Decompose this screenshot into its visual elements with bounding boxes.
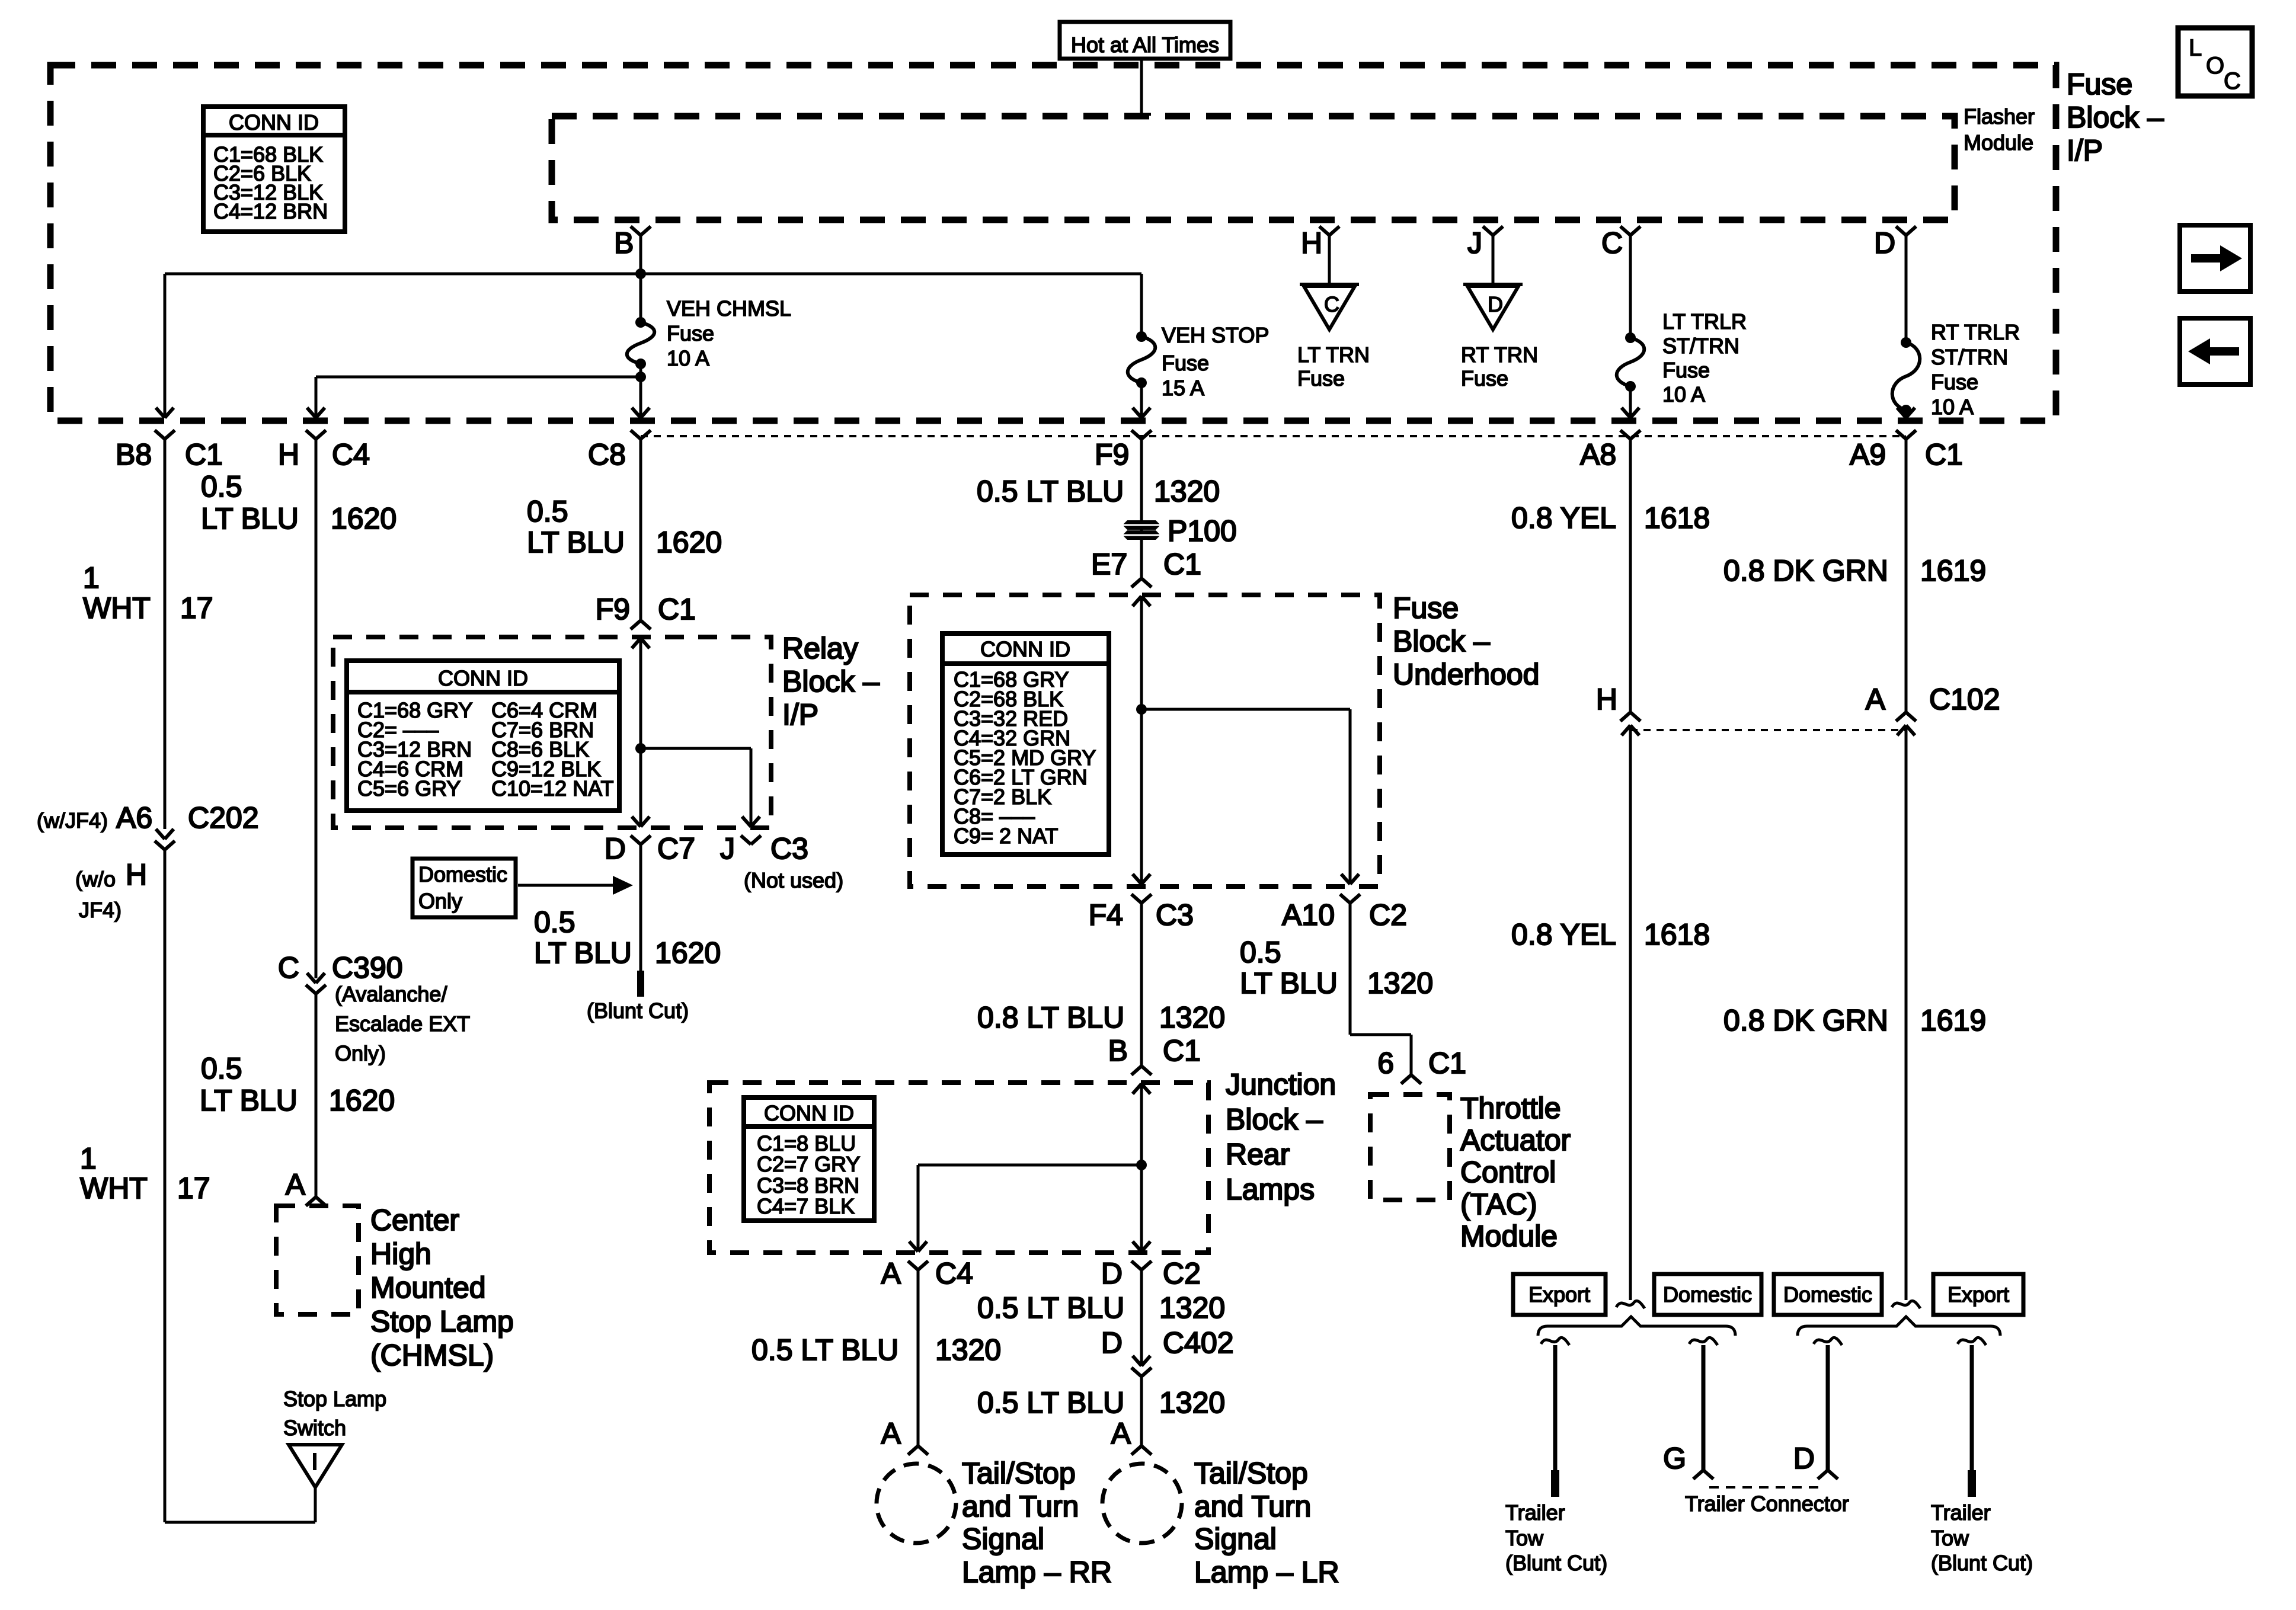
svg-text:A10: A10 — [1282, 898, 1335, 932]
wire label 0.8 LT BLU 1320 — [977, 1001, 1225, 1034]
svg-text:and Turn: and Turn — [962, 1490, 1079, 1523]
svg-text:Flasher: Flasher — [1964, 104, 2035, 129]
svg-text:0.8 DK GRN: 0.8 DK GRN — [1723, 554, 1888, 587]
brace grouping left trailer wires — [1538, 1317, 1735, 1336]
svg-text:VEH CHMSL: VEH CHMSL — [667, 296, 791, 321]
svg-text:A9: A9 — [1850, 438, 1886, 471]
wire label 0.5 LT BLU 1320 (LR) — [977, 1386, 1225, 1419]
svg-text:C1: C1 — [658, 593, 696, 626]
LT TRLR ST/TRN fuse 10A symbol — [1617, 332, 1645, 392]
svg-text:F9: F9 — [1095, 438, 1129, 471]
Export box right — [1933, 1274, 2023, 1315]
svg-text:1: 1 — [80, 1142, 97, 1175]
svg-text:I/P: I/P — [782, 698, 818, 731]
wire 0.5 LT BLU 1620 to relay block — [639, 439, 642, 620]
svg-text:0.5: 0.5 — [534, 905, 575, 939]
arrow at fuse block exit C8 — [632, 408, 650, 418]
connector chevron B8 — [155, 430, 175, 439]
RT TRLR ST/TRN fuse 10A symbol — [1892, 337, 1920, 415]
chevron A C4 — [908, 1261, 928, 1270]
wire inside relay block — [639, 638, 642, 826]
svg-text:Fuse: Fuse — [1461, 366, 1508, 391]
svg-text:1620: 1620 — [655, 936, 721, 969]
svg-text:Hot at All Times: Hot at All Times — [1071, 33, 1219, 57]
svg-text:1618: 1618 — [1644, 918, 1710, 951]
wire label 0.5 LT BLU 1320 (RR) — [752, 1333, 1001, 1366]
svg-text:Lamp – LR: Lamp – LR — [1194, 1555, 1339, 1589]
svg-text:F4: F4 — [1089, 898, 1123, 932]
wire label 0.5 LT BLU 1320 (D C2) — [977, 1291, 1225, 1324]
wire jog right to TAC — [1350, 1033, 1411, 1036]
VEH STOP fuse label — [1162, 323, 1269, 400]
svg-text:Only): Only) — [335, 1041, 386, 1065]
svg-text:1620: 1620 — [329, 1084, 395, 1117]
svg-text:Trailer Connector: Trailer Connector — [1685, 1491, 1849, 1516]
6 C1 labels at TAC — [1377, 1046, 1466, 1080]
svg-text:D: D — [1101, 1257, 1123, 1290]
svg-text:A6: A6 — [116, 801, 152, 834]
svg-text:Block –: Block – — [782, 665, 880, 698]
B C1 labels at junction block — [1108, 1034, 1201, 1067]
svg-text:VEH STOP: VEH STOP — [1162, 323, 1269, 347]
svg-text:D: D — [605, 832, 626, 865]
wire from Hot at All Times to flasher module — [1140, 59, 1143, 114]
svg-text:G: G — [1663, 1442, 1686, 1475]
svg-text:Underhood: Underhood — [1393, 658, 1539, 691]
Tail/Stop RR lamp circle — [877, 1464, 956, 1543]
svg-text:H: H — [126, 858, 147, 891]
svg-text:A: A — [1111, 1417, 1131, 1450]
wire label 0.8 YEL 1618 — [1511, 501, 1710, 534]
svg-text:(Blunt Cut): (Blunt Cut) — [1505, 1551, 1607, 1575]
Flasher Module label — [1964, 104, 2035, 155]
arrow underhood exit A10 — [1341, 874, 1359, 884]
wire 0.8 YEL 1618 upper — [1629, 439, 1632, 712]
branch wire to A C4 — [918, 1164, 1141, 1167]
blunt cut bar trailer left — [1551, 1470, 1559, 1497]
CHMSL title — [370, 1204, 514, 1372]
E7 C1 labels — [1091, 548, 1201, 581]
svg-text:1320: 1320 — [1367, 966, 1433, 1000]
svg-text:C1: C1 — [1925, 438, 1963, 471]
connector C at flasher module — [1620, 226, 1641, 235]
arrow into relay block — [632, 638, 650, 648]
svg-text:Block –: Block – — [2067, 101, 2164, 134]
wire label 0.8 DK GRN 1619 — [1723, 554, 1986, 587]
D C7 labels — [605, 832, 695, 865]
svg-text:0.8 YEL: 0.8 YEL — [1511, 918, 1616, 951]
svg-text:O: O — [2206, 53, 2224, 79]
LOC box — [2178, 28, 2252, 96]
svg-text:High: High — [370, 1237, 431, 1270]
wire from fuse to C8 — [639, 364, 642, 416]
Relay Block - I/P title — [782, 632, 880, 731]
svg-text:Stop Lamp: Stop Lamp — [283, 1387, 386, 1411]
svg-text:0.5: 0.5 — [1240, 936, 1281, 969]
connector chevron A9 — [1896, 430, 1916, 439]
CONN ID table (Junction Block Rear Lamps) — [744, 1097, 874, 1221]
Trailer Tow (Blunt Cut) label left — [1505, 1500, 1607, 1575]
svg-text:CONN ID: CONN ID — [229, 110, 319, 135]
junction inside underhood block — [1136, 704, 1147, 715]
svg-text:Stop Lamp: Stop Lamp — [370, 1305, 514, 1338]
connector C102 arrow up (left) — [1622, 725, 1639, 735]
splice P100 — [1123, 520, 1160, 540]
wire 0.5 LT BLU 1320 upper to C402 — [1140, 1270, 1143, 1366]
svg-text:C1: C1 — [1428, 1046, 1466, 1080]
branch wire down to J C3 — [750, 748, 753, 826]
wire label 0.5 LT BLU 1320 — [977, 475, 1220, 508]
LT TRLR fuse label — [1662, 309, 1747, 406]
wire D down — [1905, 235, 1908, 343]
svg-text:Center: Center — [370, 1204, 459, 1237]
svg-text:1320: 1320 — [1159, 1386, 1225, 1419]
Domestic Only box — [412, 859, 516, 917]
svg-text:15 A: 15 A — [1162, 376, 1204, 400]
wire J down — [1492, 235, 1495, 284]
wire break trailer G — [1689, 1337, 1718, 1345]
RT TRN fuse label — [1461, 343, 1538, 391]
F4 C3 labels — [1089, 898, 1194, 932]
svg-text:C: C — [1601, 226, 1623, 260]
svg-text:A: A — [1866, 683, 1886, 716]
svg-text:Fuse: Fuse — [667, 321, 714, 345]
Fuse Block - I/P dashed box — [50, 65, 2056, 421]
connector C202 chevron — [155, 841, 175, 850]
Domestic Only text — [418, 862, 507, 913]
svg-text:A8: A8 — [1580, 438, 1616, 471]
svg-text:10 A: 10 A — [667, 346, 709, 370]
connector F9 chevron at relay block — [631, 620, 651, 629]
branch down to A10 C2 — [1349, 709, 1352, 884]
svg-text:C102: C102 — [1929, 683, 2000, 716]
svg-text:LT BLU: LT BLU — [200, 1084, 298, 1117]
Domestic box right — [1774, 1274, 1882, 1315]
svg-text:H: H — [1596, 683, 1617, 716]
svg-text:1620: 1620 — [656, 526, 722, 559]
wire break at Export/Domestic — [1616, 1301, 1645, 1308]
svg-text:C2: C2 — [1369, 898, 1407, 932]
wire label 0.5 LT BLU 1320 (A10) — [1240, 936, 1433, 1000]
branch down to A C4 — [917, 1165, 920, 1251]
svg-text:C1: C1 — [1163, 548, 1201, 581]
wire to VEH CHMSL fuse — [639, 274, 642, 322]
svg-text:I/P: I/P — [2067, 134, 2103, 167]
trailer connector wire G — [1702, 1345, 1706, 1470]
arrow at relay exit D C7 — [632, 817, 650, 827]
Domestic Only arrow — [518, 876, 633, 895]
connector chevron C8 — [631, 430, 651, 439]
wire B down — [639, 235, 642, 274]
junction on B wire — [635, 268, 646, 279]
connector H chevron at C102 — [1620, 712, 1641, 721]
svg-text:P100: P100 — [1168, 514, 1237, 548]
arrow at fuse block exit C4 — [307, 408, 325, 418]
VEH CHMSL fuse label — [667, 296, 791, 370]
svg-text:1320: 1320 — [1154, 475, 1220, 508]
svg-text:D: D — [1874, 226, 1895, 260]
svg-text:D: D — [1793, 1442, 1815, 1475]
svg-text:(Blunt Cut): (Blunt Cut) — [1931, 1551, 2033, 1575]
wire label 0.5 LT BLU 1620 (blunt) — [534, 905, 721, 969]
C C390 labels — [278, 951, 470, 1065]
arrow at relay exit J C3 — [742, 817, 760, 827]
fuse block bottom pin labels — [116, 438, 1963, 471]
svg-text:1619: 1619 — [1920, 1004, 1986, 1037]
Domestic box left — [1654, 1274, 1761, 1315]
wire down to B8 — [164, 274, 167, 416]
svg-text:A: A — [881, 1257, 901, 1290]
wire 0.8 DK GRN 1619 lower — [1905, 725, 1908, 1300]
svg-text:C4: C4 — [332, 438, 370, 471]
svg-text:Only: Only — [418, 889, 462, 913]
left arrow icon — [2188, 338, 2239, 364]
svg-text:C7: C7 — [657, 832, 695, 865]
RT TRN fuse triangle — [1463, 284, 1523, 329]
svg-text:0.5: 0.5 — [201, 1052, 242, 1085]
Stop Lamp Switch symbol — [289, 1445, 342, 1487]
connector A at RR lamp — [908, 1446, 928, 1455]
Hot at All Times box — [1060, 22, 1230, 59]
svg-text:Export: Export — [1528, 1282, 1590, 1307]
svg-text:(Blunt Cut): (Blunt Cut) — [587, 998, 689, 1023]
svg-text:Tow: Tow — [1931, 1526, 1969, 1550]
svg-text:C: C — [278, 951, 299, 984]
svg-text:C9= 2 NAT: C9= 2 NAT — [954, 824, 1058, 848]
connector C402 arrow — [1133, 1356, 1150, 1366]
LT TRN fuse label — [1297, 343, 1370, 391]
arrow junction exit A — [909, 1241, 927, 1251]
D C2 labels — [1101, 1257, 1201, 1290]
Stop Lamp Switch label — [283, 1387, 386, 1440]
svg-text:Domestic: Domestic — [418, 862, 507, 886]
svg-text:CONN ID: CONN ID — [980, 637, 1070, 661]
left arrow box — [2180, 318, 2250, 385]
arrow at fuse block exit F9 — [1133, 408, 1150, 418]
trailer tow wire left — [1553, 1345, 1558, 1470]
svg-text:1320: 1320 — [1159, 1001, 1225, 1034]
Export box left — [1513, 1274, 1606, 1315]
Trailer Tow (Blunt Cut) label right — [1931, 1500, 2033, 1575]
J C3 labels — [720, 832, 843, 892]
blunt cut bar — [637, 971, 644, 997]
svg-text:C8: C8 — [588, 438, 626, 471]
svg-text:CONN ID: CONN ID — [438, 666, 528, 690]
svg-text:1619: 1619 — [1920, 554, 1986, 587]
svg-text:JF4): JF4) — [79, 898, 121, 922]
CHMSL dashed box — [276, 1206, 359, 1314]
junction below VEH CHMSL fuse — [635, 372, 646, 382]
svg-text:Trailer: Trailer — [1505, 1500, 1565, 1525]
svg-text:Domestic: Domestic — [1783, 1282, 1872, 1307]
svg-text:LT TRLR: LT TRLR — [1662, 309, 1747, 334]
wire: horizontal feed from B to B8 and VEH STOP — [165, 273, 1141, 276]
connector D at flasher module — [1896, 226, 1916, 235]
svg-text:LT BLU: LT BLU — [1240, 966, 1338, 1000]
Fuse Block - Underhood dashed box — [910, 595, 1380, 886]
svg-text:1320: 1320 — [935, 1333, 1001, 1366]
svg-text:ST/TRN: ST/TRN — [1931, 345, 2008, 369]
wire to stop lamp switch — [165, 1521, 315, 1524]
svg-text:C1: C1 — [1163, 1034, 1201, 1067]
svg-text:Fuse: Fuse — [2067, 68, 2132, 101]
connector C402 chevron — [1131, 1368, 1152, 1377]
Tail/Stop RR label — [962, 1457, 1112, 1589]
connector A at CHMSL — [306, 1197, 326, 1206]
w/o JF4 note — [75, 858, 147, 922]
svg-text:Rear: Rear — [1226, 1138, 1290, 1171]
svg-text:Actuator: Actuator — [1460, 1124, 1571, 1157]
junction inside relay block — [635, 743, 646, 754]
svg-text:1618: 1618 — [1644, 501, 1710, 534]
Junction Block - Rear Lamps dashed box — [709, 1083, 1208, 1253]
wire label 0.5 LT BLU 1620 (C8) — [527, 495, 722, 559]
wire 0.8 YEL 1618 lower — [1629, 725, 1632, 1300]
wire 0.5 LT BLU 1620 lower — [315, 994, 318, 1197]
wire break at Domestic/Export — [1892, 1301, 1920, 1308]
svg-text:H: H — [1301, 226, 1322, 260]
svg-text:Module: Module — [1460, 1219, 1558, 1253]
svg-text:Throttle: Throttle — [1460, 1092, 1561, 1125]
svg-text:1: 1 — [83, 561, 100, 594]
Flasher Module dashed box — [552, 116, 1955, 220]
TAC Module title — [1460, 1092, 1571, 1253]
right arrow box — [2180, 225, 2250, 292]
wire inside junction block — [1140, 1084, 1143, 1251]
svg-text:B: B — [614, 226, 634, 260]
RT TRLR fuse label — [1931, 320, 2020, 419]
chevron D C2 — [1131, 1261, 1152, 1270]
svg-text:Lamp – RR: Lamp – RR — [962, 1555, 1112, 1589]
svg-text:WHT: WHT — [83, 591, 151, 625]
svg-text:Mounted: Mounted — [370, 1271, 486, 1304]
svg-text:B8: B8 — [116, 438, 152, 471]
svg-text:Fuse: Fuse — [1662, 358, 1710, 382]
wire label 1 WHT 17 — [83, 561, 213, 625]
svg-text:0.5: 0.5 — [201, 470, 242, 503]
connector G chevron — [1693, 1470, 1713, 1479]
svg-text:F9: F9 — [596, 593, 630, 626]
A C102 labels — [1866, 683, 2000, 716]
wire down to VEH STOP fuse — [1140, 274, 1143, 337]
wire down to TAC module — [1410, 1035, 1413, 1075]
blunt cut bar trailer right — [1968, 1470, 1976, 1497]
svg-text:Fuse: Fuse — [1162, 351, 1209, 375]
arrow at fuse block exit B8 — [156, 408, 174, 418]
svg-text:10 A: 10 A — [1662, 382, 1705, 406]
svg-text:17: 17 — [177, 1172, 210, 1205]
svg-text:Domestic: Domestic — [1663, 1282, 1752, 1307]
Relay Block - I/P dashed box — [333, 637, 771, 828]
wire fuse to A8 — [1629, 386, 1632, 416]
svg-text:(w/JF4): (w/JF4) — [37, 808, 108, 833]
wire break trailer D — [1814, 1337, 1842, 1345]
trailer connector dashed line — [1709, 1486, 1818, 1489]
svg-text:1620: 1620 — [331, 502, 396, 535]
CONN ID table (Fuse Block I/P) — [203, 107, 345, 232]
trailer connector wire D — [1826, 1345, 1830, 1470]
svg-text:6: 6 — [1377, 1046, 1394, 1080]
svg-text:J: J — [1467, 226, 1482, 260]
svg-text:0.5 LT BLU: 0.5 LT BLU — [977, 1386, 1124, 1419]
connector B chevron at junction block — [1131, 1066, 1152, 1075]
A C4 labels — [881, 1257, 973, 1290]
svg-text:Signal: Signal — [1194, 1522, 1277, 1555]
svg-text:C4=12 BRN: C4=12 BRN — [213, 199, 328, 223]
wire label 0.5 LT BLU 1620 — [201, 470, 396, 535]
svg-text:C1: C1 — [185, 438, 223, 471]
wire 0.5 LT BLU 1320 from A10 — [1349, 903, 1352, 1035]
svg-text:Control: Control — [1460, 1156, 1556, 1189]
svg-text:B: B — [1108, 1034, 1128, 1067]
wire 0.5 LT BLU 1620 upper — [315, 439, 318, 978]
svg-text:(CHMSL): (CHMSL) — [370, 1339, 494, 1372]
VEH CHMSL fuse 10A symbol — [627, 317, 655, 369]
svg-text:Fuse: Fuse — [1393, 591, 1459, 625]
connector 6 C1 at TAC — [1401, 1075, 1421, 1084]
svg-text:C3: C3 — [770, 832, 808, 865]
wire 0.8 DK GRN 1619 upper — [1905, 439, 1908, 712]
connector C1 thin dashed line — [641, 435, 1906, 437]
wire from fuse to F9 — [1140, 383, 1143, 416]
arrow underhood exit F4 — [1133, 874, 1150, 884]
svg-text:LT BLU: LT BLU — [527, 526, 625, 559]
svg-text:RT TRLR: RT TRLR — [1931, 320, 2020, 344]
wire end tick at flasher box — [1132, 113, 1151, 116]
connector D chevron — [1818, 1470, 1838, 1479]
svg-text:C5=6 GRY: C5=6 GRY — [357, 776, 461, 801]
wire 0.8 LT BLU 1320 to junction block — [1140, 903, 1143, 1066]
CONN ID table (Relay Block I/P) — [347, 661, 619, 811]
svg-text:C390: C390 — [332, 951, 403, 984]
wire H down — [1328, 235, 1331, 284]
connector C202 arrow — [156, 829, 174, 839]
A10 C2 labels — [1282, 898, 1407, 932]
svg-text:Escalade EXT: Escalade EXT — [335, 1012, 470, 1036]
svg-text:Relay: Relay — [782, 632, 858, 665]
arrow at fuse block exit A8 — [1622, 408, 1639, 418]
svg-text:0.5: 0.5 — [527, 495, 568, 528]
connector A chevron at C102 — [1896, 712, 1916, 721]
svg-text:ST/TRN: ST/TRN — [1662, 334, 1739, 358]
svg-text:Fuse: Fuse — [1931, 370, 1978, 394]
TAC Module dashed box — [1370, 1094, 1450, 1200]
svg-text:0.5 LT BLU: 0.5 LT BLU — [977, 475, 1124, 508]
wire 0.5 LT BLU 1320 to LR lamp — [1140, 1377, 1143, 1446]
svg-text:0.8 YEL: 0.8 YEL — [1511, 501, 1616, 534]
connector C102 thin dashed line — [1630, 729, 1906, 731]
wire to blunt cut — [639, 844, 642, 972]
wire label 0.5 LT BLU 1620 lower — [200, 1052, 395, 1117]
svg-text:C2=7 GRY: C2=7 GRY — [757, 1152, 860, 1176]
svg-text:1320: 1320 — [1159, 1291, 1225, 1324]
wire fuse to A9 — [1905, 410, 1908, 416]
connector chevron C4 — [306, 430, 326, 439]
Tail/Stop LR label — [1194, 1457, 1339, 1589]
svg-text:L: L — [2189, 35, 2202, 61]
D C402 labels — [1101, 1326, 1234, 1359]
chevron D C7 — [631, 836, 651, 844]
svg-text:0.5 LT BLU: 0.5 LT BLU — [752, 1333, 898, 1366]
wire 0.5 LT BLU 1320 to P100 — [1140, 439, 1143, 578]
svg-text:C4=7 BLK: C4=7 BLK — [757, 1194, 855, 1218]
svg-text:Block –: Block – — [1393, 625, 1490, 658]
svg-text:10 A: 10 A — [1931, 395, 1974, 419]
connector C390 arrow — [307, 973, 325, 983]
arrow junction exit D — [1133, 1241, 1150, 1251]
svg-text:Block –: Block – — [1226, 1103, 1323, 1136]
svg-text:J: J — [720, 832, 735, 865]
